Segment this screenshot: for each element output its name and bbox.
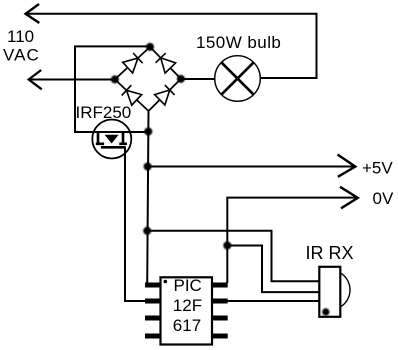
MOSFET Q1 internal: left source contact tick and foot — [96, 132, 104, 144]
wire: bridge right node to lamp left terminal — [181, 78, 216, 80]
diode D2 (right node to + node) — [156, 53, 176, 73]
svg-text:12F: 12F — [173, 296, 202, 315]
PIC pin 1 marker dot — [164, 280, 168, 284]
bridge rectifier arm: bottom-left — [115, 79, 149, 111]
junction: +5V tap — [144, 163, 152, 171]
svg-text:150W bulb: 150W bulb — [196, 33, 281, 52]
svg-text:IR RX: IR RX — [306, 243, 354, 263]
diode D1 (left node to + node) — [123, 53, 143, 73]
wire: +5V rail — [148, 166, 356, 168]
diode D4 (- node to right node) — [155, 85, 175, 105]
junction: bridge + node — [146, 43, 154, 51]
junction: MOSFET drain line / main vertical — [144, 128, 152, 136]
svg-text:110: 110 — [7, 27, 34, 46]
wire: 110 VAC hot line (top, to lamp right terminal) — [26, 14, 317, 78]
svg-text:PIC: PIC — [174, 276, 202, 295]
arrowhead: +5V arrow — [338, 155, 356, 177]
wire: PIC pin 2 (right) to IR RX pin 3 — [228, 300, 320, 302]
wire: node A to IR RX pin 1 (staircase) — [148, 231, 320, 281]
svg-text:+5V: +5V — [362, 159, 393, 178]
svg-text:VAC: VAC — [3, 46, 40, 65]
wire: 0V node to IR RX pin 2 (staircase) — [227, 246, 319, 293]
PIC U1 right pins 5-8 — [213, 285, 228, 336]
arrowhead: left arrow on hot line — [26, 4, 40, 23]
IR RX module body — [319, 267, 340, 317]
IR RX pin dot — [322, 308, 329, 315]
MOSFET Q1 IRF250 body circle — [92, 120, 131, 159]
PIC U1 left pins 1-4 — [145, 285, 160, 336]
junction: bridge left AC node — [111, 75, 119, 83]
lamp B1: 150W bulb symbol — [215, 56, 261, 102]
diode D3 (- node to left node) — [122, 85, 142, 105]
wire: MOSFET gate down to PIC pin 2 (left) — [125, 147, 145, 301]
svg-text:617: 617 — [173, 316, 201, 335]
IR RX lens dome — [340, 273, 350, 307]
wire: 0V rail from PIC pin 1 (right) up and right — [227, 198, 356, 283]
bridge rectifier arm: top-left — [115, 47, 150, 80]
wire: bridge - node down to PIC pin 1 (left), main vertical — [147, 111, 148, 283]
svg-text:0V: 0V — [373, 189, 394, 208]
arrowhead: left arrow on neutral line — [29, 70, 42, 89]
wire: bridge + node to MOSFET drain line — [75, 46, 150, 132]
MOSFET Q1 internal: right drain contact tick and foot — [119, 132, 127, 144]
MOSFET Q1 internal: gate plate — [101, 146, 126, 149]
junction: IR RX pin1 wire tap (node A) — [143, 227, 151, 235]
wire: 110 VAC neutral line (to bridge left node) — [29, 79, 115, 81]
bridge rectifier arm: top-right — [150, 47, 181, 79]
bridge rectifier arm: bottom-right — [149, 79, 181, 111]
svg-text:IRF250: IRF250 — [76, 103, 132, 122]
junction: bridge right AC node — [177, 75, 185, 83]
MOSFET Q1 internal: body arrow (filled triangle) — [105, 135, 117, 143]
PIC U1 body — [161, 277, 213, 344]
arrowhead: 0V arrow — [340, 187, 358, 209]
junction: 0V / IR RX pin2 tap — [223, 242, 231, 250]
